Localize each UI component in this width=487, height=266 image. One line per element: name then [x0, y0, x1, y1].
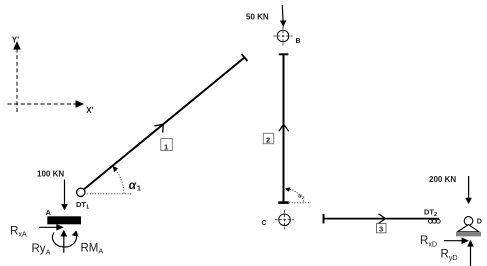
pin DT1 [77, 188, 85, 196]
svg-text:DT2: DT2 [424, 207, 437, 218]
reaction RyD arrow [467, 240, 474, 266]
svg-text:2: 2 [266, 135, 270, 144]
svg-text:1: 1 [164, 142, 168, 151]
fixed support A [47, 216, 81, 224]
svg-text:100 KN: 100 KN [37, 169, 64, 178]
reaction RyA arrow [60, 230, 67, 253]
svg-text:RyA: RyA [32, 243, 51, 257]
svg-text:50 KN: 50 KN [246, 12, 269, 21]
svg-text:RxD: RxD [420, 235, 437, 248]
svg-text:RMA: RMA [81, 242, 104, 255]
moment RMA arc [52, 230, 78, 247]
axis Y' (dashed vertical arrow) [13, 41, 21, 112]
svg-text:RyD: RyD [441, 249, 458, 262]
angle alpha1 arc [113, 166, 124, 194]
member 3 direction arrow [379, 214, 386, 224]
angle alpha1 dotted baseline [87, 193, 133, 195]
member 1 direction arrow [154, 124, 163, 132]
roller support D triangle [458, 225, 480, 232]
svg-text:1: 1 [137, 186, 141, 193]
svg-text:3: 3 [379, 225, 383, 234]
svg-text:X': X' [86, 106, 93, 115]
svg-text:200 KN: 200 KN [429, 175, 456, 184]
node D circle [464, 217, 473, 226]
svg-text:RxA: RxA [10, 225, 27, 238]
member 2 (vertical bar) [278, 54, 288, 202]
load 50 KN arrow [280, 5, 286, 27]
member 1 number box [161, 139, 173, 152]
svg-text:Y': Y' [12, 35, 19, 44]
angle alpha2 dotted baseline [289, 202, 311, 204]
angle alpha2 arc [285, 187, 304, 201]
axis X' (dashed horizontal arrow) [8, 100, 85, 108]
node B [274, 27, 293, 46]
rollers DT2 [428, 219, 440, 223]
svg-text:2: 2 [302, 194, 305, 199]
svg-text:C: C [262, 220, 267, 227]
load 100 KN arrow [61, 180, 68, 211]
svg-text:B: B [296, 38, 301, 45]
member 3 (horizontal bar) [324, 214, 440, 223]
svg-text:α: α [129, 178, 137, 192]
member 1 (diagonal bar) [84, 54, 247, 189]
svg-text:DT1: DT1 [76, 200, 89, 211]
reaction RxA arrow [39, 224, 64, 231]
member 3 number box [377, 224, 387, 234]
member 2 number box [263, 133, 273, 144]
load 200 KN arrow [465, 176, 472, 204]
node C [275, 210, 294, 229]
ground bar D [456, 232, 481, 237]
reaction RxD arrow [444, 237, 469, 244]
svg-text:D: D [477, 219, 482, 226]
svg-text:A: A [46, 208, 52, 217]
member 2 direction arrow [279, 124, 289, 131]
